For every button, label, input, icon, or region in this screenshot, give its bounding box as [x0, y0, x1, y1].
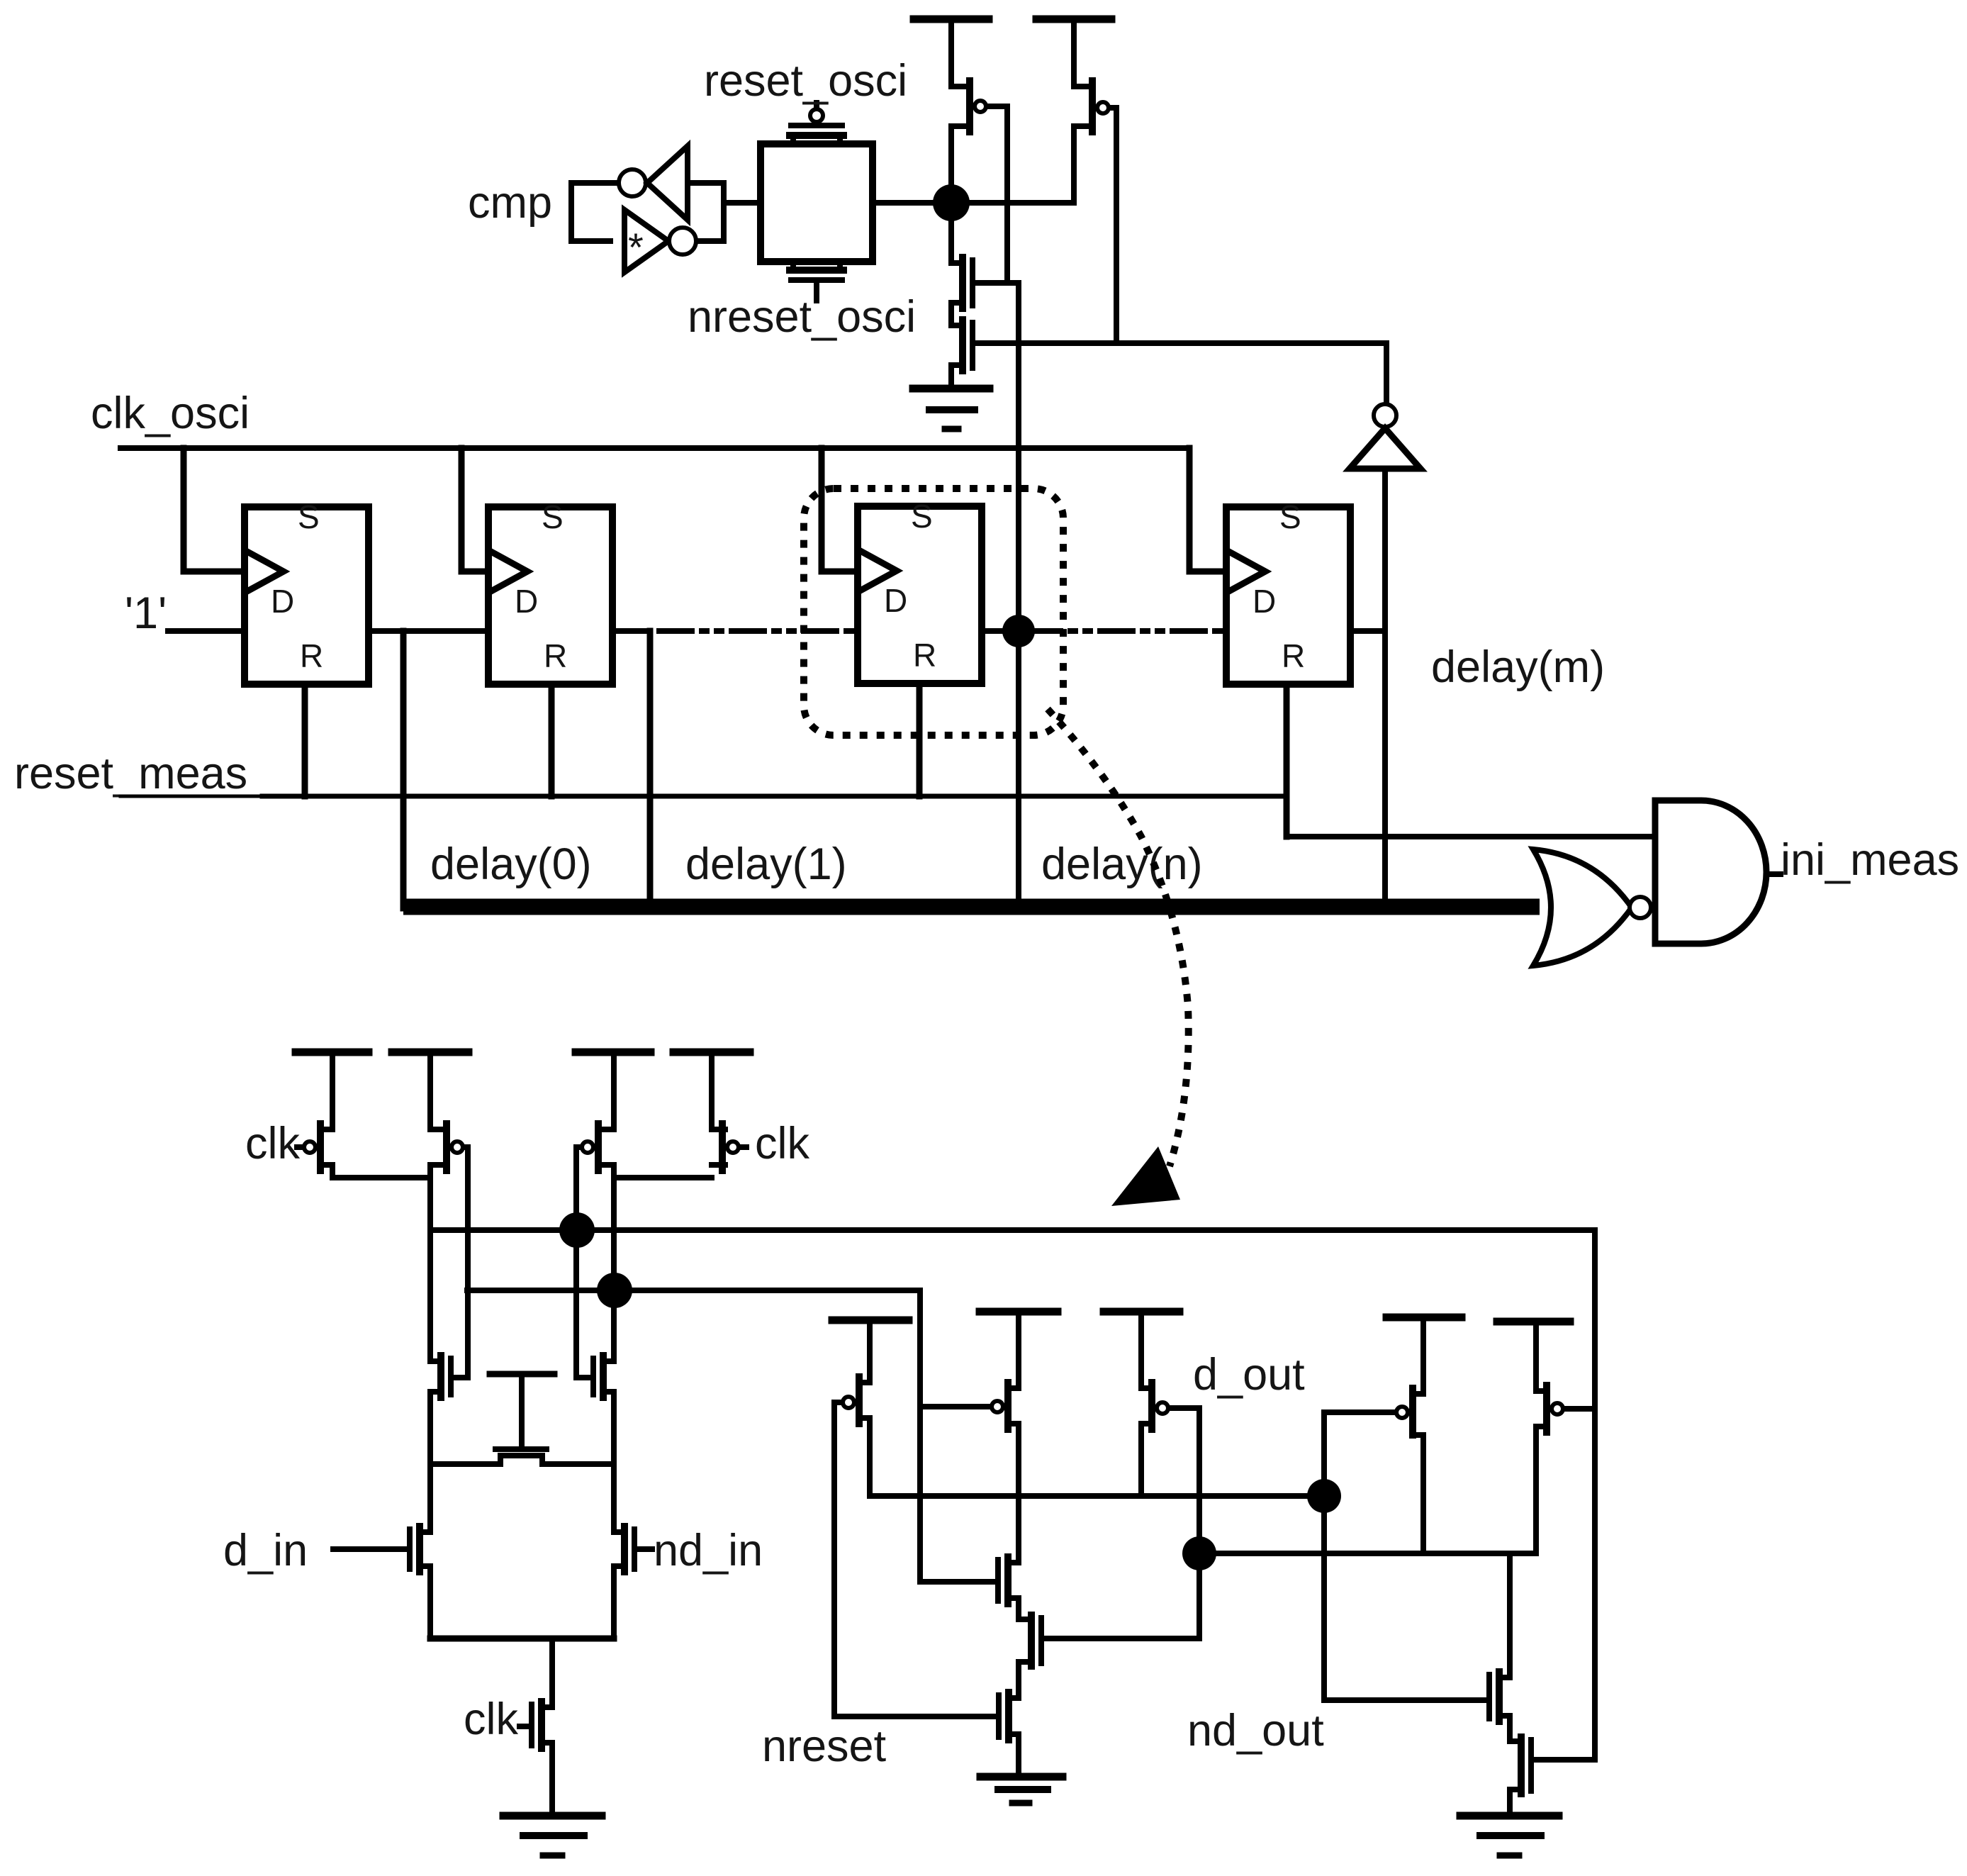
svg-text:clk: clk — [245, 1119, 300, 1168]
svg-text:R: R — [913, 637, 936, 674]
svg-text:clk: clk — [464, 1694, 518, 1744]
svg-text:D: D — [884, 582, 907, 619]
svg-text:clk_osci: clk_osci — [91, 389, 250, 438]
svg-text:S: S — [298, 498, 320, 535]
svg-text:nreset_osci: nreset_osci — [688, 292, 916, 342]
svg-text:nd_out: nd_out — [1187, 1706, 1324, 1755]
svg-text:D: D — [515, 583, 538, 620]
svg-text:S: S — [1279, 498, 1301, 535]
svg-text:R: R — [300, 637, 323, 674]
svg-text:nd_in: nd_in — [654, 1526, 763, 1575]
svg-text:d_in: d_in — [223, 1526, 308, 1575]
svg-text:nreset: nreset — [762, 1721, 887, 1771]
svg-text:clk: clk — [755, 1119, 809, 1168]
svg-text:ini_meas: ini_meas — [1781, 835, 1959, 885]
svg-text:*: * — [628, 225, 644, 269]
svg-text:R: R — [1282, 637, 1305, 674]
svg-text:S: S — [911, 498, 933, 535]
svg-text:d_out: d_out — [1193, 1350, 1305, 1400]
svg-text:reset_osci: reset_osci — [704, 56, 907, 106]
svg-text:reset_meas: reset_meas — [14, 749, 247, 798]
svg-text:R: R — [544, 637, 567, 674]
svg-text:D: D — [1253, 583, 1276, 620]
svg-text:cmp: cmp — [468, 178, 552, 228]
svg-text:delay(0): delay(0) — [430, 839, 592, 889]
svg-text:delay(n): delay(n) — [1041, 839, 1203, 889]
svg-text:D: D — [271, 583, 294, 620]
svg-text:delay(m): delay(m) — [1431, 642, 1605, 692]
svg-text:'1': '1' — [125, 588, 167, 638]
svg-text:S: S — [542, 498, 564, 535]
svg-text:delay(1): delay(1) — [685, 839, 847, 889]
